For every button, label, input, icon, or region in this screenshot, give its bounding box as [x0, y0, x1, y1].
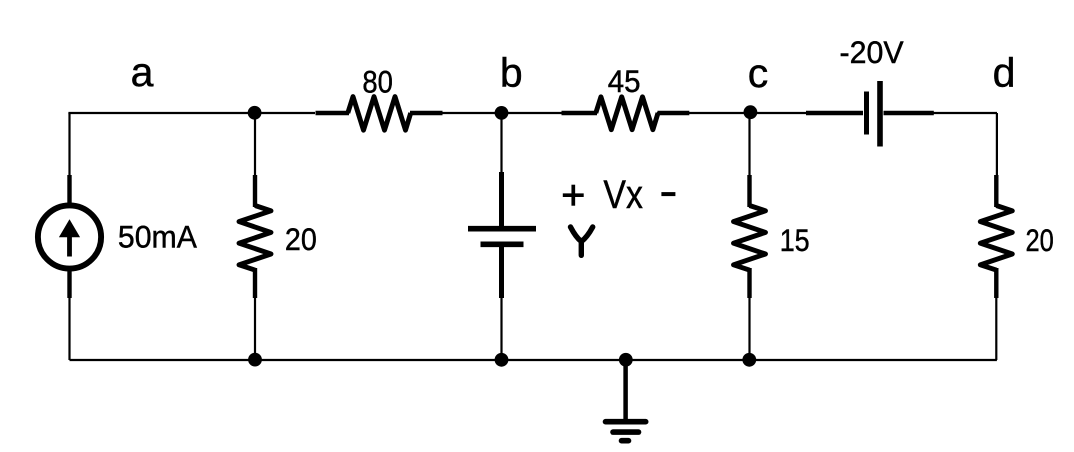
node b junction dot: [495, 106, 509, 120]
wire right rail lower: [995, 296, 997, 360]
svg-text:a: a: [131, 49, 154, 95]
wire node c column upper: [748, 113, 750, 178]
wire bottom rail: [70, 359, 997, 361]
node a junction dot: [248, 106, 262, 120]
label Y: [571, 227, 593, 255]
resistor R 45 between b and c: [562, 97, 690, 130]
current source I1 50mA: [38, 175, 101, 298]
wire node b column lower: [500, 247, 502, 360]
wire node b column upper: [500, 113, 502, 226]
resistor R 80 between a and b: [316, 97, 443, 131]
battery V -20V between c and d: [806, 81, 934, 147]
wire node a column upper: [254, 113, 256, 178]
wire node c column lower: [748, 296, 750, 360]
wire left rail upper: [68, 113, 70, 360]
node dot bottom ground: [619, 353, 633, 367]
resistor R 20 below node a: [239, 175, 271, 298]
svg-text:Vx: Vx: [603, 173, 643, 217]
wire right rail upper: [996, 113, 998, 178]
node c junction dot: [744, 105, 758, 119]
svg-text:c: c: [748, 50, 769, 96]
node dot bottom below c: [742, 353, 756, 367]
svg-text:45: 45: [608, 63, 641, 99]
svg-text:d: d: [993, 50, 1016, 96]
resistor R 15 below node c: [734, 175, 766, 298]
svg-text:80: 80: [362, 63, 393, 99]
svg-text:15: 15: [780, 222, 810, 258]
ground: [606, 360, 646, 441]
wire node a column lower: [254, 296, 256, 360]
resistor R 20 below node d: [980, 175, 1012, 298]
wire top rail: R80 to node b to R45: [442, 112, 562, 114]
node dot bottom below a: [248, 353, 262, 367]
label + (Vx plus sign): [563, 185, 584, 206]
svg-text:20: 20: [1026, 222, 1054, 258]
node dot bottom below b: [495, 353, 509, 367]
svg-text:50mA: 50mA: [118, 219, 197, 255]
wire top rail: corner to node a to R80: [68, 112, 315, 114]
svg-text:-20V: -20V: [840, 34, 904, 70]
svg-text:b: b: [500, 49, 523, 95]
label - (Vx minus sign): [661, 192, 675, 196]
svg-text:20: 20: [285, 221, 317, 257]
battery Y below node b: [468, 172, 536, 298]
wire top rail: R45 to node c to battery: [657, 112, 807, 114]
wire top rail: battery to node d: [933, 112, 997, 114]
